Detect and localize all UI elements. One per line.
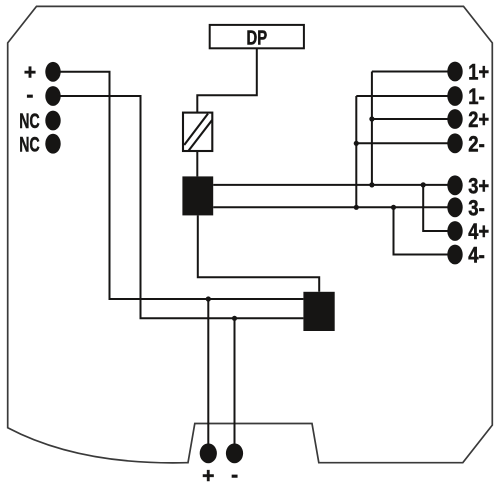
- svg-text:1-: 1-: [468, 84, 485, 109]
- junction C-3+: [421, 182, 426, 187]
- terminal + (left): [45, 62, 60, 82]
- junction B-2-: [354, 141, 359, 146]
- wire 1+: [372, 71, 448, 73]
- svg-text:-: -: [231, 464, 238, 487]
- svg-text:2-: 2-: [468, 131, 485, 156]
- wire 3-: [213, 206, 448, 208]
- wire 2+: [372, 118, 448, 120]
- junction - feed: [232, 316, 237, 321]
- svg-text:4-: 4-: [468, 243, 485, 268]
- svg-text:NC: NC: [19, 133, 39, 156]
- terminal + (bottom): [200, 443, 217, 463]
- wire to bottom +: [207, 299, 209, 445]
- block DP: [210, 25, 304, 48]
- bus wire A: [371, 72, 373, 185]
- svg-text:DP: DP: [247, 27, 268, 49]
- terminal 1-: [447, 86, 462, 106]
- wire 4-: [394, 207, 449, 254]
- wire 2-: [356, 142, 448, 144]
- terminal 2-: [447, 133, 462, 153]
- terminal 2+: [447, 109, 462, 129]
- terminal NC: [45, 111, 60, 131]
- svg-text:2+: 2+: [468, 107, 489, 132]
- wire to bottom -: [234, 318, 236, 445]
- junction + feed: [206, 296, 211, 301]
- junction A-3+: [369, 182, 374, 187]
- terminal - (bottom): [226, 443, 243, 463]
- isolator U1 (hatched box): [183, 113, 212, 151]
- junction A-2+: [369, 116, 374, 121]
- svg-text:1+: 1+: [468, 60, 489, 85]
- svg-text:4+: 4+: [468, 219, 489, 244]
- svg-text:-: -: [26, 84, 33, 107]
- junction D-3-: [391, 205, 396, 210]
- wire - supply: [60, 96, 303, 318]
- terminal - (left): [45, 86, 60, 106]
- output block (solid): [303, 292, 334, 331]
- bus wire B: [355, 96, 357, 207]
- terminal 3-: [447, 197, 462, 217]
- wire converter to output block: [198, 215, 319, 291]
- junction B-3-: [354, 205, 359, 210]
- wire 1-: [356, 95, 448, 97]
- terminal NC2: [45, 134, 60, 154]
- svg-text:+: +: [24, 61, 36, 84]
- svg-text:NC: NC: [19, 110, 39, 133]
- wire 3+: [213, 184, 448, 186]
- wire isolator to converter: [196, 151, 198, 176]
- terminal 3+: [447, 175, 462, 195]
- svg-text:+: +: [202, 465, 214, 488]
- terminal 4+: [447, 221, 462, 241]
- wire 4+: [423, 185, 448, 231]
- terminal 4-: [447, 245, 462, 265]
- converter block (solid): [182, 176, 213, 215]
- wire DP to isolator: [197, 48, 256, 112]
- terminal 1+: [447, 62, 462, 82]
- svg-text:3-: 3-: [468, 195, 485, 220]
- wire + supply: [60, 72, 303, 299]
